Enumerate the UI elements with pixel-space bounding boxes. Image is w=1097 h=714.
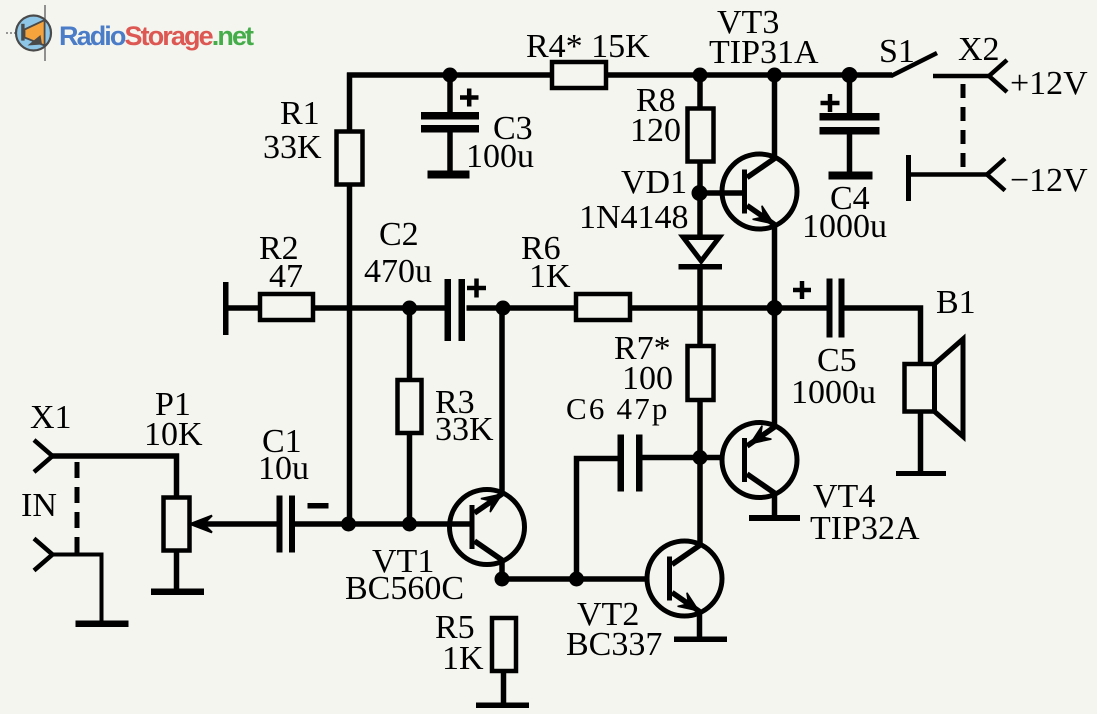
wire C3 stem (447, 75, 453, 113)
node dot base R1 (341, 517, 356, 532)
resistor R7 (688, 346, 714, 400)
resistor R4 (552, 62, 606, 88)
wire VD1 to R7 (697, 266, 703, 347)
arrow P1 wiper (190, 516, 212, 533)
resistor R8 (688, 109, 714, 162)
logo transistor shape (25, 20, 45, 46)
svg-text:+12V: +12V (1010, 65, 1088, 102)
svg-text:470u: 470u (364, 253, 432, 290)
transistor VT4 (722, 423, 797, 498)
node dot VT3 base (692, 185, 708, 201)
capacitor C2 plates (445, 279, 452, 341)
wire VT4 collector down (772, 492, 778, 516)
connector X2 +12V fork (989, 60, 1007, 92)
wire middle signal line (228, 305, 445, 311)
transistor VT3 (722, 154, 797, 229)
resistor R5 (492, 618, 516, 671)
svg-text:1K: 1K (442, 640, 484, 677)
wire VT1 emitter column (499, 308, 505, 495)
svg-text:C2: C2 (379, 216, 419, 253)
wire X1 dashed link (75, 462, 80, 556)
connector X2 -12V wire (908, 172, 988, 177)
connector X1 bottom fork (34, 539, 53, 571)
svg-text:1N4148: 1N4148 (579, 199, 689, 236)
capacitor C6 plates (618, 435, 625, 492)
transistor VT1 (450, 490, 525, 565)
wire R1 column top (347, 73, 353, 134)
node dot rail VT3 (767, 68, 782, 83)
svg-text:−12V: −12V (1010, 162, 1088, 199)
wire C6 node to VT4 base (643, 455, 725, 461)
resistor R3 (398, 380, 422, 433)
logo base bar (21, 24, 24, 41)
capacitor C1 plates (277, 496, 283, 553)
wire base line (C1 to VT1) (204, 521, 278, 527)
node dot C2 right (496, 301, 511, 316)
svg-text:S1: S1 (879, 33, 915, 70)
svg-text:TIP32A: TIP32A (810, 510, 920, 547)
wire base line right of C1 (295, 521, 472, 527)
svg-text:1000u: 1000u (802, 208, 887, 245)
svg-text:VD1: VD1 (621, 164, 687, 201)
svg-text:BC337: BC337 (566, 626, 662, 663)
connector X2 -12V bar (906, 155, 911, 201)
node dot rail C4 (842, 67, 858, 83)
connector X2 +12V wire (933, 74, 990, 79)
wire VT1 collector line to VT2 base (502, 576, 649, 582)
wire VT3 base (700, 190, 745, 196)
diode VD1 (679, 235, 723, 270)
logo crosshair (6, 5, 45, 61)
ground VT2 bar (674, 637, 727, 643)
resistor R2 (260, 294, 313, 320)
wire top rail (347, 72, 892, 78)
wire X1 top to P1 (52, 456, 177, 498)
svg-text:1K: 1K (529, 258, 571, 295)
plus C4 (821, 94, 840, 112)
wire C3 lower stem (447, 132, 453, 171)
wire C2 node down to R3 (407, 308, 413, 381)
svg-text:B1: B1 (936, 284, 976, 321)
ground R5 bar (476, 703, 529, 709)
capacitor C5 plates (827, 279, 833, 338)
wire R7 to VT2 collector (697, 400, 703, 546)
wire C4 stem (847, 75, 853, 114)
ground X1 bar (76, 621, 129, 628)
ground VT4 bar (749, 515, 800, 521)
svg-text:IN: IN (21, 487, 57, 524)
ground C4 bar (829, 172, 873, 180)
ground C3 bar (428, 171, 470, 179)
logo circle (16, 16, 51, 51)
wire C4 lower stem (847, 134, 853, 172)
capacitor C3 plates (421, 112, 479, 120)
wire middle line C2 to C5 (467, 305, 828, 311)
plus C2 (467, 279, 486, 298)
wire C5 to speaker corner (843, 308, 921, 364)
svg-text:X1: X1 (30, 399, 72, 436)
svg-text:C6 47p: C6 47p (566, 391, 670, 426)
node dot C6 branch (569, 572, 584, 587)
wire C6 left branch (577, 459, 619, 580)
switch S1 lever (891, 53, 937, 76)
node R2 stub (223, 282, 229, 335)
wire X2 dashed link (961, 84, 966, 172)
ground P1 bar (151, 589, 204, 596)
wire R5 to ground (501, 670, 507, 703)
svg-text:47: 47 (269, 258, 303, 295)
plus C3 (460, 89, 479, 107)
svg-text:TIP31A: TIP31A (709, 34, 819, 71)
svg-text:1000u: 1000u (791, 374, 876, 411)
svg-text:33K: 33K (263, 129, 322, 166)
speaker B1 (905, 339, 964, 437)
node dot rail C3 (443, 68, 458, 83)
node dot VT1 collector (495, 572, 510, 587)
logo arrow (28, 35, 43, 46)
wire P1 down (174, 550, 180, 589)
svg-text:100u: 100u (466, 138, 534, 175)
wire X1 bottom (52, 555, 102, 622)
connector X1 top fork (34, 440, 53, 472)
wire R8 column top (697, 75, 703, 110)
node dot rail R8 (693, 68, 708, 83)
wire speaker down (918, 411, 924, 472)
connector X2 -12V fork (987, 159, 1005, 191)
node dot base R3 (402, 517, 417, 532)
node dot output (767, 300, 783, 316)
svg-text:X2: X2 (958, 31, 1000, 68)
svg-text:BC560C: BC560C (345, 570, 464, 607)
svg-text:10u: 10u (258, 450, 309, 487)
resistor R1 (337, 132, 363, 185)
node dot C2 left (402, 301, 417, 316)
svg-text:RadioStorage.net: RadioStorage.net (59, 21, 254, 51)
svg-text:R1: R1 (280, 95, 320, 132)
resistor R6 (576, 294, 630, 320)
wire R1 column bottom (347, 184, 353, 524)
wire R3 to base line (407, 432, 413, 524)
transistor VT2 (647, 541, 722, 616)
wire VT1 collector column (499, 559, 505, 581)
svg-text:R4* 15K: R4* 15K (526, 28, 650, 65)
potentiometer P1 (164, 498, 190, 551)
minus C1 (308, 503, 329, 509)
node dot R7 VT4 base (693, 450, 708, 465)
wire R8 to VD1 node (697, 161, 703, 237)
wire VT3 emitter to node to VT4 emitter (772, 224, 778, 428)
wire VT3 collector column (772, 73, 778, 160)
ground B1 bar (896, 471, 946, 476)
capacitor C4 plates (820, 113, 880, 121)
svg-text:120: 120 (630, 112, 681, 149)
svg-text:33K: 33K (435, 411, 494, 448)
plus C5 (793, 281, 811, 299)
svg-text:10K: 10K (144, 416, 203, 453)
wire VT2 emitter down (697, 610, 703, 638)
